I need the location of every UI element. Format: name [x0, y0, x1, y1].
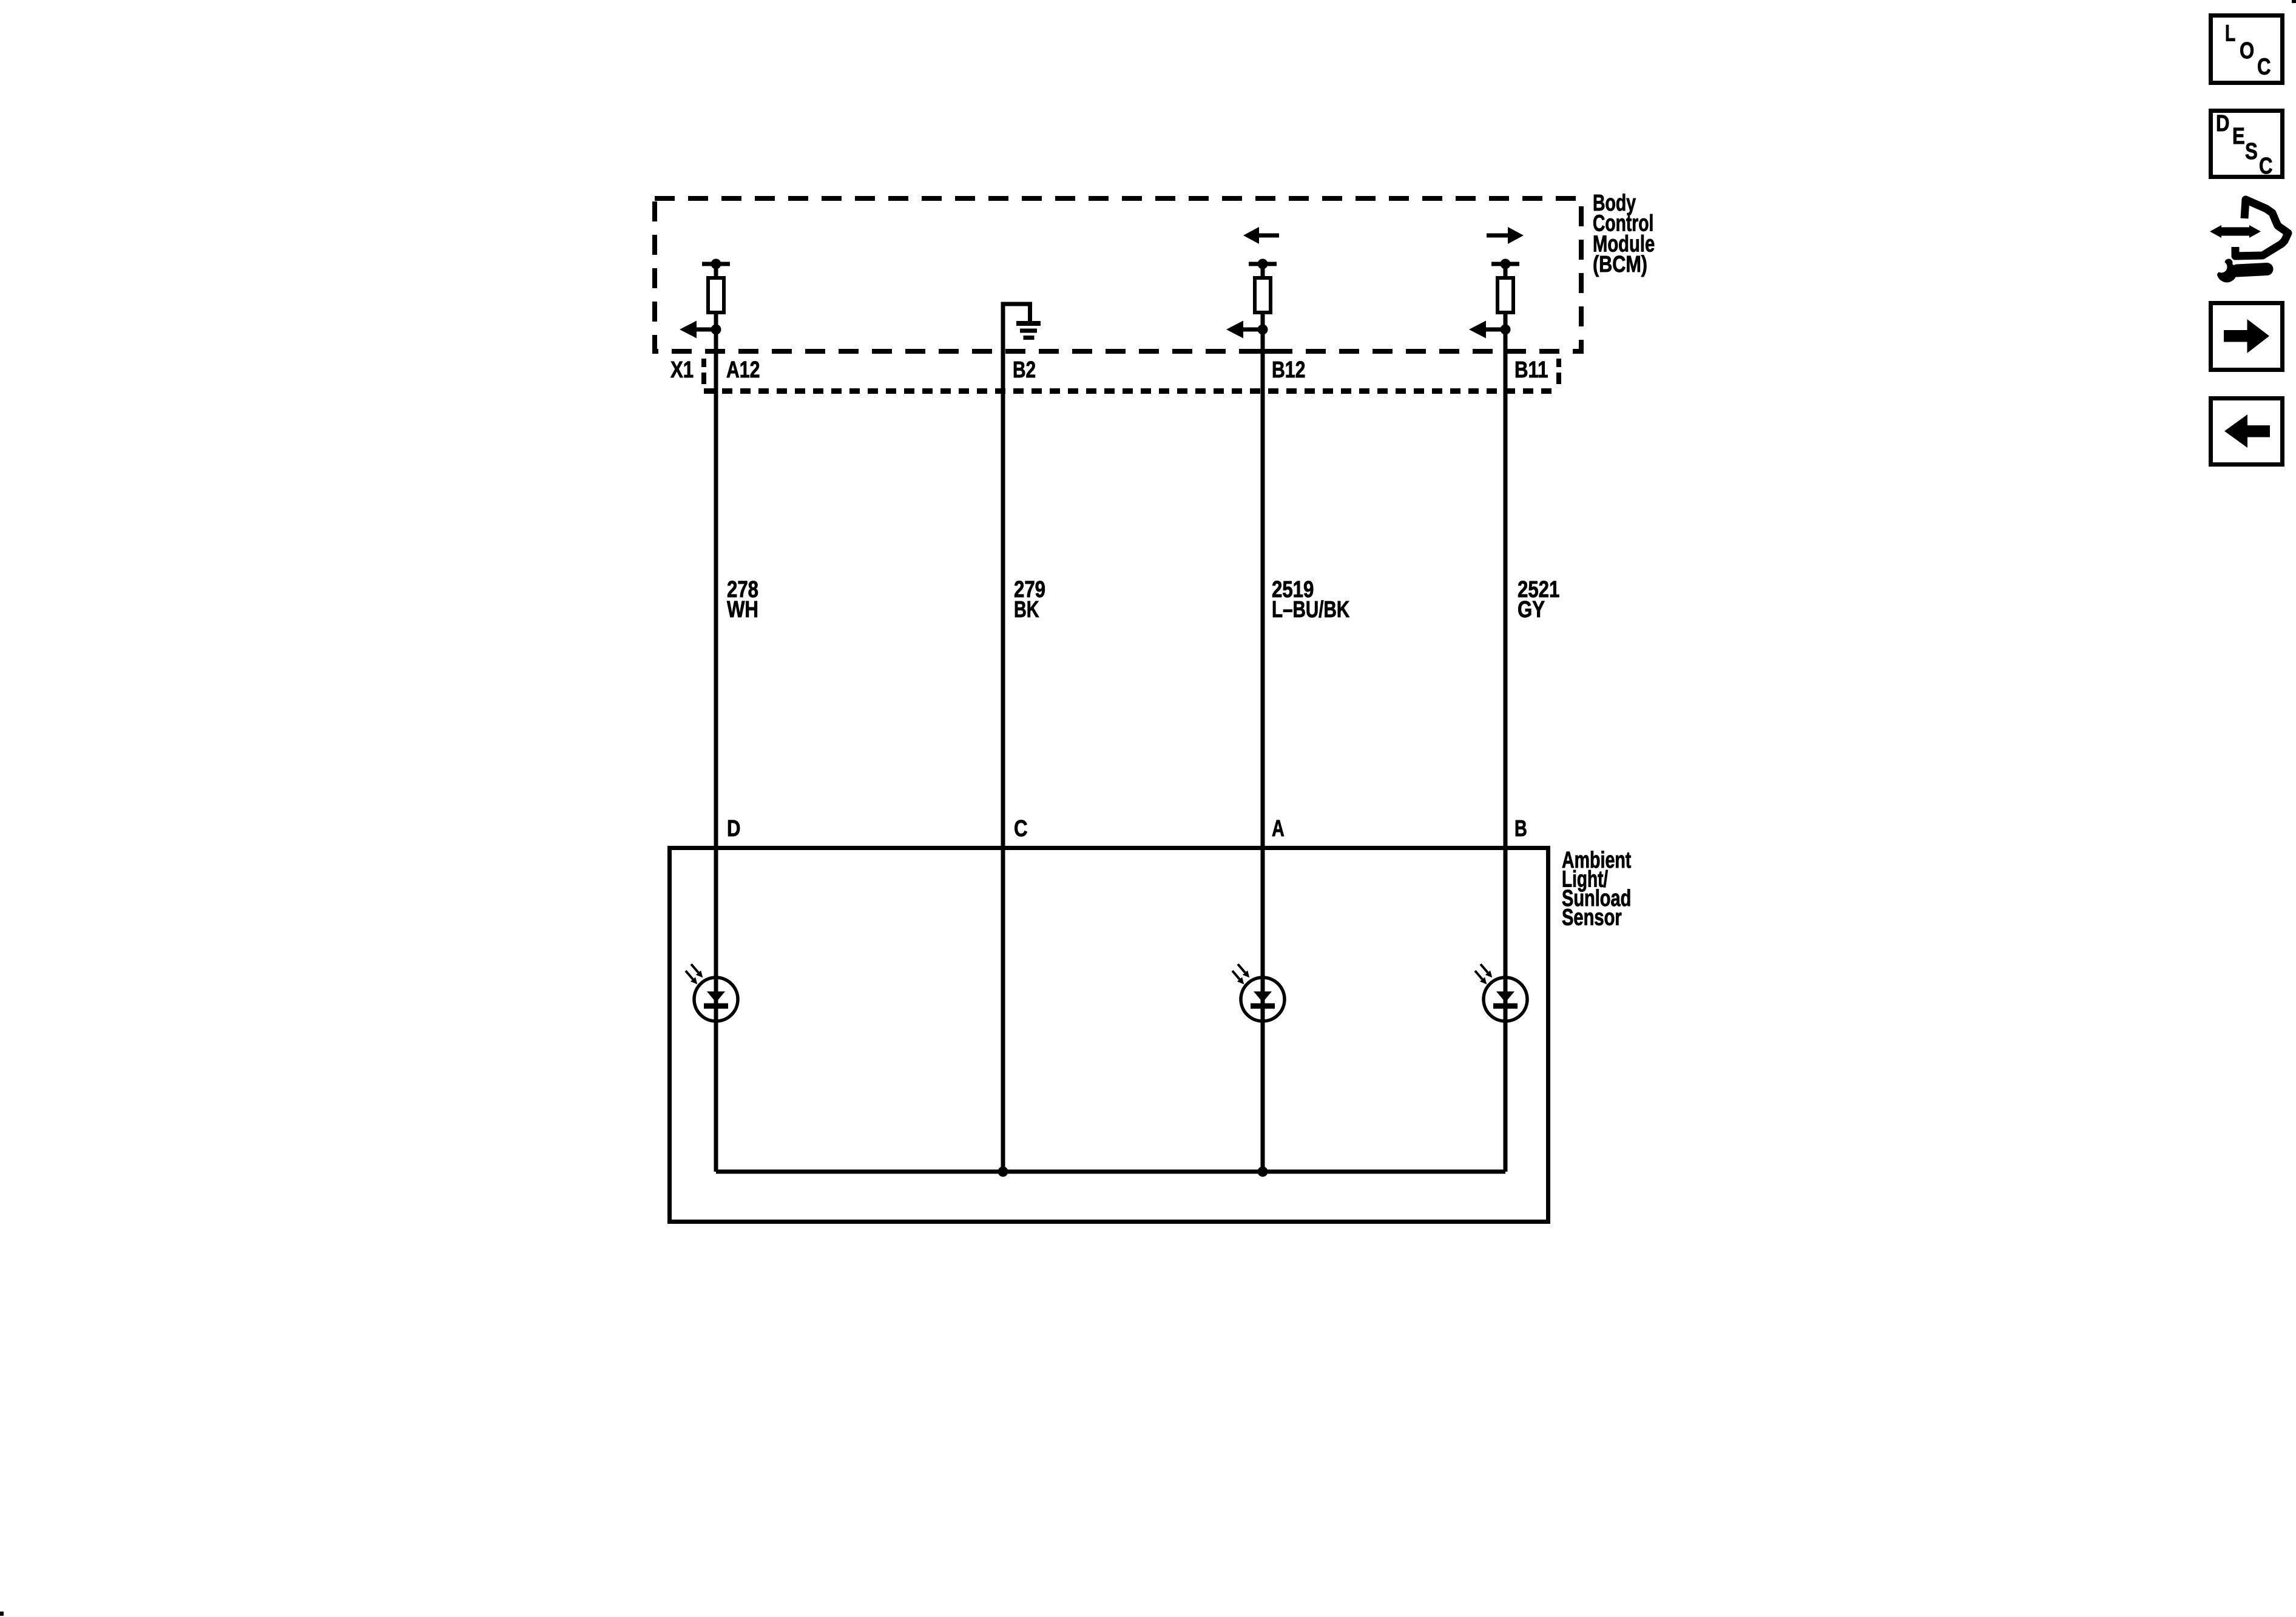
svg-text:X1: X1 — [670, 357, 694, 383]
svg-text:GY: GY — [1518, 597, 1545, 623]
svg-text:L–BU/BK: L–BU/BK — [1272, 597, 1350, 623]
svg-text:Sensor: Sensor — [1562, 905, 1622, 931]
svg-text:E: E — [2232, 124, 2245, 149]
svg-text:C: C — [2257, 55, 2271, 80]
svg-text:B2: B2 — [1013, 357, 1036, 383]
svg-text:S: S — [2245, 139, 2258, 164]
svg-text:C: C — [2259, 154, 2273, 179]
svg-text:B11: B11 — [1514, 357, 1548, 383]
svg-text:O: O — [2240, 38, 2254, 64]
svg-text:WH: WH — [727, 597, 758, 623]
svg-text:D: D — [727, 816, 741, 842]
svg-text:(BCM): (BCM) — [1593, 252, 1647, 277]
svg-text:A12: A12 — [726, 357, 760, 383]
svg-text:C: C — [1014, 816, 1028, 842]
svg-text:B12: B12 — [1272, 357, 1305, 383]
svg-text:BK: BK — [1014, 597, 1039, 623]
svg-text:L: L — [2225, 21, 2235, 47]
svg-text:B: B — [1514, 816, 1527, 842]
svg-text:A: A — [1272, 816, 1285, 842]
svg-text:D: D — [2216, 111, 2230, 137]
